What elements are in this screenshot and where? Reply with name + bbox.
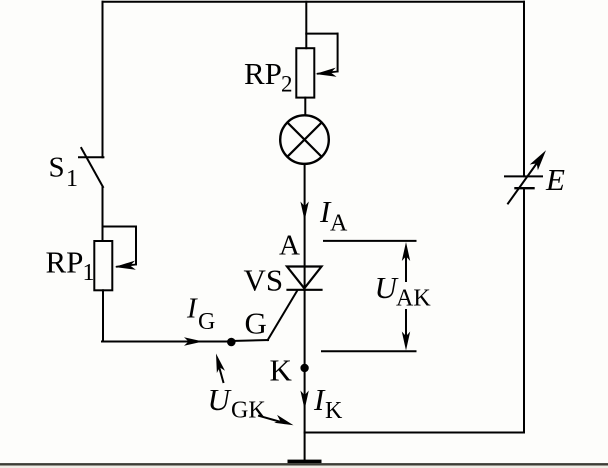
thyristor VS cathode bar xyxy=(288,289,322,291)
arrowhead: IA current xyxy=(300,202,308,221)
svg-text:1: 1 xyxy=(83,260,95,286)
UGK arrow shaft right xyxy=(259,416,285,423)
lamp X stroke 1 xyxy=(287,123,321,157)
lamp X stroke 2 xyxy=(287,123,321,157)
UGK arrow shaft up xyxy=(218,364,223,382)
svg-text:2: 2 xyxy=(281,72,293,97)
svg-text:1: 1 xyxy=(66,166,78,192)
wire: RP2 to lamp xyxy=(304,98,306,116)
battery E short plate xyxy=(516,187,534,189)
measurement bar: UAK bottom xyxy=(322,350,416,352)
battery E adjustment arrow shaft xyxy=(508,157,542,204)
resistor RP1 body xyxy=(94,241,112,290)
wire: gate diagonal to thyristor xyxy=(268,291,297,340)
svg-text:A: A xyxy=(279,230,300,262)
lamp circle xyxy=(280,115,329,164)
thyristor VS triangle xyxy=(287,267,322,289)
wire: anode vertical (lamp to VS) xyxy=(304,164,306,290)
wire: RP1 bottom to gate wire xyxy=(102,290,104,341)
svg-text:S: S xyxy=(49,152,65,184)
wire: left branch into RP1 xyxy=(102,187,104,242)
wire: gate dot to diagonal xyxy=(231,340,268,341)
wire: right branch upper xyxy=(523,2,525,177)
ground symbol xyxy=(288,460,322,464)
svg-text:RP: RP xyxy=(244,56,282,91)
arrowhead: IG current xyxy=(184,337,203,345)
svg-text:U: U xyxy=(208,382,233,417)
UAK arrow line lower segment xyxy=(405,310,407,340)
arrowhead: RP2 wiper xyxy=(315,68,337,79)
bottom page rule xyxy=(0,463,608,466)
wire: RP2 wiper vertical xyxy=(337,34,339,72)
measurement bar: UAK top xyxy=(324,240,416,242)
arrowhead: IK current xyxy=(300,391,308,410)
UAK arrow line upper segment xyxy=(405,255,407,281)
junction dot: cathode node K xyxy=(300,364,308,372)
wire: RP1 wiper horizontal xyxy=(103,226,137,228)
svg-text:K: K xyxy=(325,398,343,424)
junction dot: gate node G xyxy=(227,338,236,347)
svg-text:A: A xyxy=(330,211,348,237)
switch S1 blade xyxy=(81,148,103,187)
wire: RP2 wiper arrow shaft xyxy=(318,72,338,74)
arrowhead: UAK down xyxy=(402,332,410,351)
wire: RP2 wiper horizontal xyxy=(306,33,337,35)
svg-text:I: I xyxy=(186,293,198,325)
wire: left branch upper xyxy=(102,2,104,158)
svg-text:G: G xyxy=(198,309,215,335)
arrowhead: RP1 wiper xyxy=(114,261,136,272)
wire: right branch lower xyxy=(523,188,525,432)
wire: top bus xyxy=(103,1,525,3)
wire: gate horizontal xyxy=(102,341,231,343)
arrowhead: UAK up xyxy=(402,242,410,261)
svg-text:K: K xyxy=(270,353,293,388)
strip below rule xyxy=(0,466,608,468)
wire: RP1 wiper arrow shaft xyxy=(117,265,136,267)
wire: bottom bus xyxy=(305,432,524,434)
wire: cathode vertical to ground xyxy=(304,290,306,460)
resistor RP2 body xyxy=(296,48,314,97)
svg-text:AK: AK xyxy=(396,286,431,312)
wire: RP2 top vertical xyxy=(305,2,307,48)
svg-text:GK: GK xyxy=(231,398,266,424)
arrowhead: battery E adjustment xyxy=(530,147,550,170)
battery E long plate xyxy=(505,175,542,177)
arrowhead: UGK up pointer xyxy=(212,352,225,373)
wire: RP1 wiper vertical xyxy=(135,227,137,265)
svg-text:VS: VS xyxy=(244,263,284,298)
arrowhead: UGK right pointer xyxy=(274,415,295,429)
switch S1 contact tick xyxy=(79,156,103,158)
svg-text:RP: RP xyxy=(46,245,84,280)
svg-text:E: E xyxy=(545,162,565,197)
svg-text:G: G xyxy=(245,306,267,341)
